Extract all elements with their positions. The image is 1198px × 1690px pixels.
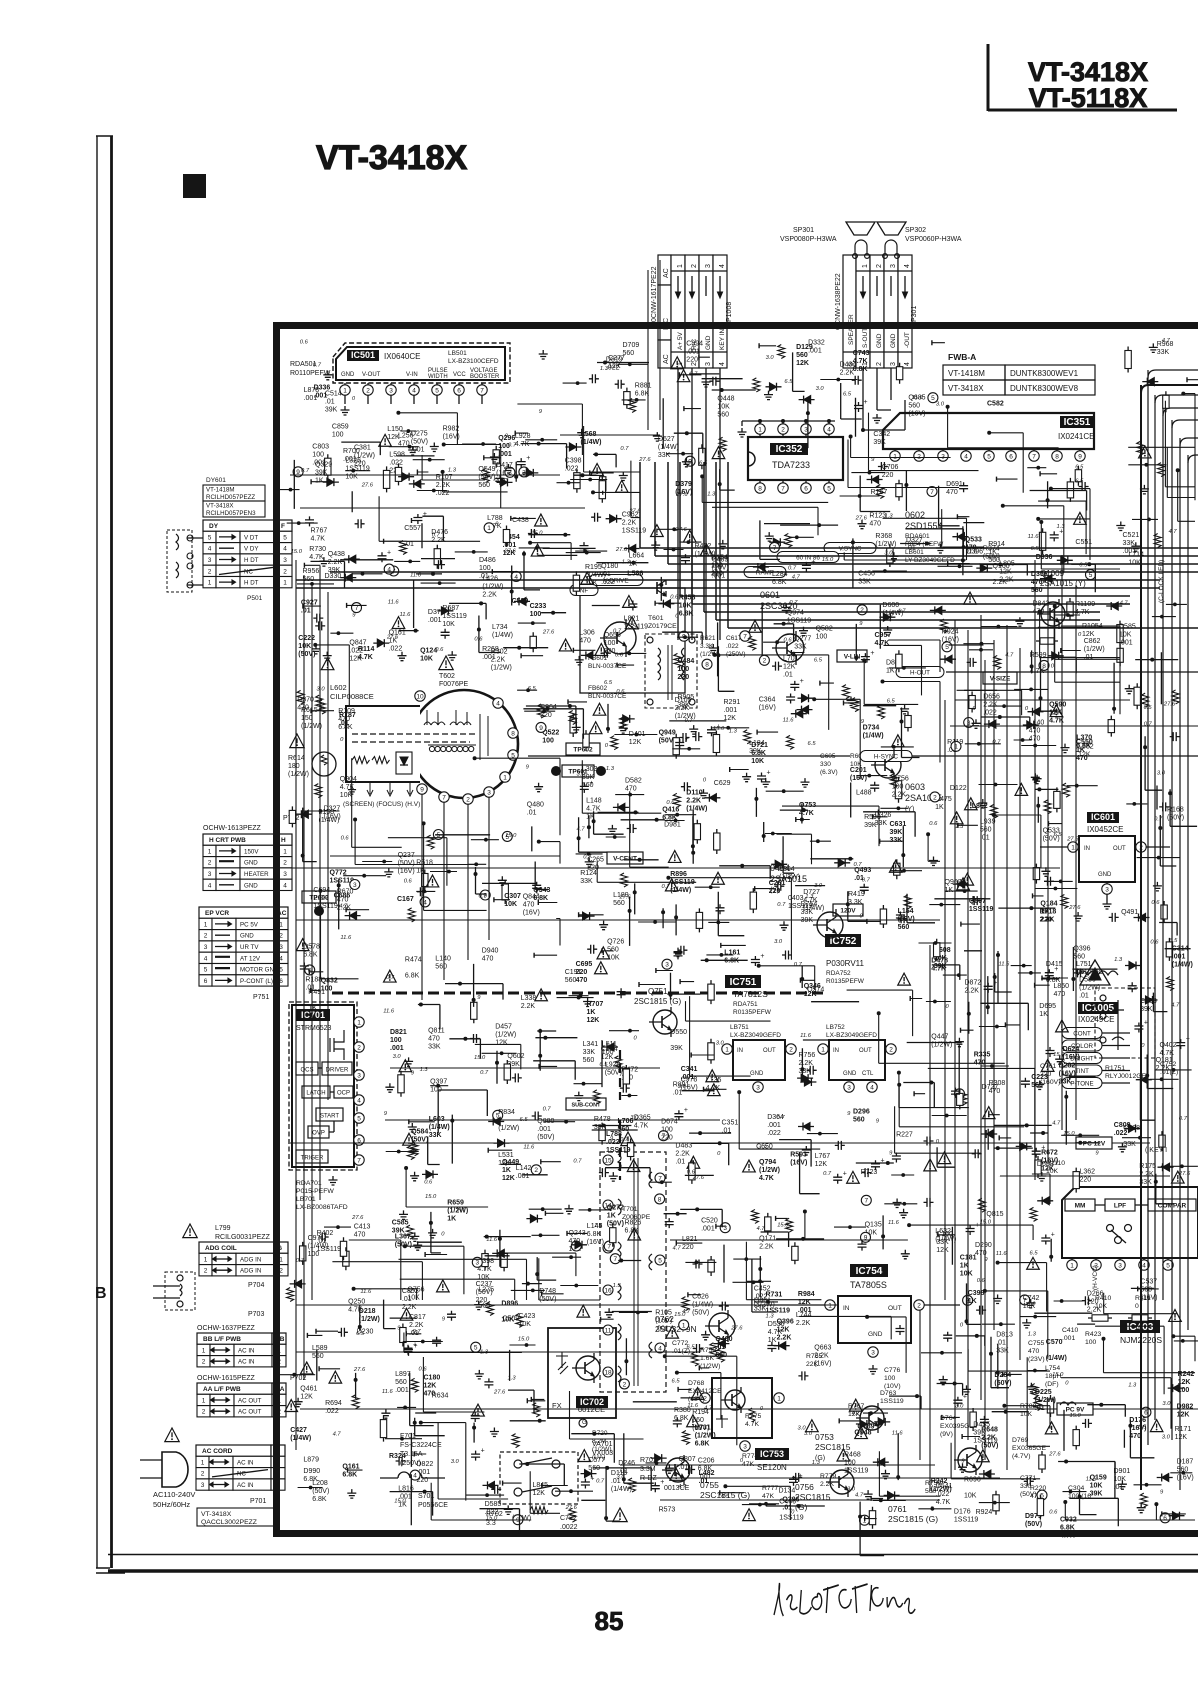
svg-text:0.6: 0.6 (300, 339, 309, 345)
svg-text:(50V): (50V) (395, 1242, 412, 1249)
svg-text:C629: C629 (714, 780, 731, 787)
svg-text:Q904: Q904 (340, 776, 357, 783)
svg-text:OUT: OUT (763, 1048, 776, 1054)
svg-text:2.2K: 2.2K (981, 1435, 996, 1442)
svg-text:VSP0080P-H3WA: VSP0080P-H3WA (780, 236, 837, 243)
svg-text:3.0: 3.0 (774, 939, 783, 945)
svg-text:27.6: 27.6 (675, 492, 688, 498)
svg-text:AC OUT: AC OUT (238, 1397, 262, 1404)
svg-text:10K: 10K (960, 1270, 973, 1277)
svg-text:1: 1 (204, 1256, 208, 1263)
svg-text:3: 3 (283, 871, 287, 878)
svg-text:C557: C557 (404, 525, 421, 532)
svg-text:V-IN: V-IN (406, 372, 418, 378)
svg-text:4: 4 (283, 546, 287, 553)
svg-text:6: 6 (804, 485, 808, 492)
svg-text:(9V): (9V) (940, 1431, 953, 1438)
svg-text:10K: 10K (1128, 560, 1141, 567)
svg-text:D734: D734 (863, 725, 880, 732)
svg-text:2: 2 (876, 362, 883, 366)
svg-text:C484: C484 (678, 658, 695, 665)
svg-text:3: 3 (1118, 1262, 1122, 1269)
svg-text:3.0: 3.0 (1162, 1401, 1171, 1407)
svg-text:C423: C423 (519, 1313, 536, 1320)
svg-text:1: 1 (202, 1397, 206, 1404)
svg-text:(1/4W): (1/4W) (319, 817, 340, 824)
svg-text:4: 4 (827, 426, 831, 433)
svg-text:0.7: 0.7 (508, 442, 517, 448)
svg-text:470: 470 (523, 901, 535, 908)
svg-text:D624: D624 (1063, 1046, 1080, 1053)
svg-text:AC110-240V: AC110-240V (153, 1490, 195, 1499)
svg-text:5: 5 (658, 1257, 662, 1264)
svg-text:F0076PE: F0076PE (439, 681, 469, 688)
svg-text:R105: R105 (655, 1309, 672, 1316)
svg-text:GND: GND (240, 933, 254, 940)
svg-text:180: 180 (288, 763, 300, 770)
svg-text:C398: C398 (565, 457, 582, 464)
svg-text:6.5: 6.5 (672, 1378, 681, 1384)
svg-text:27.6: 27.6 (351, 1215, 364, 1221)
svg-text:NC: NC (244, 568, 253, 575)
svg-text:7: 7 (1032, 453, 1036, 460)
svg-text:27.6: 27.6 (1048, 1452, 1061, 1458)
svg-text:+: + (660, 1479, 664, 1486)
svg-text:D813: D813 (996, 1332, 1013, 1339)
svg-text:RCILHD057PEN3: RCILHD057PEN3 (206, 510, 256, 517)
svg-text:1: 1 (283, 580, 287, 587)
svg-text:H DT: H DT (244, 580, 259, 587)
svg-text:(1/4W): (1/4W) (429, 1124, 450, 1131)
svg-text:11.6: 11.6 (1086, 1477, 1098, 1483)
svg-text:7: 7 (607, 1244, 611, 1251)
svg-text:330: 330 (820, 761, 831, 768)
svg-text:Q438: Q438 (328, 551, 345, 558)
svg-text:560: 560 (1073, 953, 1085, 960)
svg-text:R195: R195 (585, 564, 602, 571)
svg-text:12K: 12K (424, 1383, 437, 1390)
svg-text:(1/4W): (1/4W) (492, 632, 513, 639)
svg-text:D674: D674 (661, 1118, 678, 1125)
svg-text:4: 4 (208, 882, 212, 889)
svg-text:SE120N: SE120N (757, 1463, 787, 1472)
svg-text:Q277: Q277 (794, 636, 811, 643)
svg-text:(50V): (50V) (1025, 1521, 1042, 1528)
svg-text:12K: 12K (495, 1040, 508, 1047)
svg-text:D187: D187 (1177, 1458, 1194, 1465)
svg-text:4: 4 (412, 387, 416, 394)
svg-text:EP VCR: EP VCR (205, 910, 229, 917)
svg-text:R767: R767 (311, 527, 328, 534)
svg-text:1: 1 (677, 264, 684, 268)
svg-text:(1/2W): (1/2W) (1079, 984, 1100, 991)
svg-text:Q250: Q250 (348, 1298, 365, 1305)
svg-text:2.2K: 2.2K (965, 988, 980, 995)
svg-text:39K: 39K (325, 407, 338, 414)
svg-text:D768: D768 (688, 1380, 704, 1387)
svg-text:L751: L751 (1076, 961, 1092, 968)
svg-text:4.7K: 4.7K (875, 640, 890, 647)
svg-text:(H-VCC): (H-VCC) (1092, 1265, 1099, 1290)
svg-text:LPF: LPF (1114, 1203, 1126, 1210)
svg-text:Q402: Q402 (1160, 1042, 1177, 1049)
svg-text:C413: C413 (354, 1223, 371, 1230)
svg-text:0.6: 0.6 (1151, 900, 1160, 906)
svg-text:15: 15 (604, 1157, 612, 1164)
svg-text:220: 220 (476, 1297, 488, 1304)
svg-text:4.7: 4.7 (757, 1226, 766, 1232)
svg-text:33K: 33K (428, 1043, 441, 1050)
svg-text:Q847: Q847 (349, 640, 366, 647)
svg-text:0.7: 0.7 (789, 600, 798, 606)
svg-text:SPEAKER: SPEAKER (848, 314, 855, 345)
svg-text:33K: 33K (794, 644, 807, 651)
svg-text:10: 10 (416, 693, 424, 700)
svg-text:1.3: 1.3 (613, 1283, 622, 1289)
svg-text:L364: L364 (779, 866, 795, 873)
svg-text:.01: .01 (325, 399, 335, 406)
svg-text:V DT: V DT (244, 534, 258, 541)
svg-text:+: + (800, 678, 804, 685)
svg-text:0.7: 0.7 (543, 1107, 552, 1113)
svg-text:.022: .022 (389, 646, 403, 653)
svg-text:0.7: 0.7 (313, 363, 322, 369)
svg-text:Q602: Q602 (507, 1053, 524, 1060)
svg-text:39K: 39K (1140, 1006, 1153, 1013)
svg-text:0601: 0601 (760, 590, 780, 600)
svg-text:(50V): (50V) (312, 1488, 329, 1495)
svg-text:V-CENT: V-CENT (613, 856, 637, 863)
svg-text:4.7: 4.7 (682, 1309, 691, 1315)
svg-text:2.2K: 2.2K (675, 1151, 690, 1158)
svg-text:IC351: IC351 (1064, 417, 1091, 428)
svg-text:(16V): (16V) (523, 909, 540, 916)
svg-text:11.6: 11.6 (999, 962, 1011, 968)
svg-text:4: 4 (204, 955, 208, 962)
svg-text:150: 150 (301, 715, 313, 722)
svg-text:27.6: 27.6 (503, 549, 516, 555)
svg-text:(16V): (16V) (1177, 1474, 1194, 1481)
svg-text:6.8K: 6.8K (1076, 743, 1091, 750)
svg-text:GND: GND (843, 1071, 857, 1077)
svg-text:RDA751: RDA751 (733, 1001, 758, 1008)
svg-text:11.6: 11.6 (687, 1403, 699, 1409)
svg-text:C695: C695 (576, 961, 593, 968)
svg-text:6.8K: 6.8K (724, 958, 739, 965)
svg-text:Q533: Q533 (965, 536, 982, 543)
svg-text:Q329: Q329 (315, 462, 332, 469)
svg-text:1SS119: 1SS119 (622, 527, 646, 534)
svg-text:D134: D134 (779, 1488, 796, 1495)
svg-text:4.7: 4.7 (1052, 1121, 1061, 1127)
svg-text:12K: 12K (498, 1160, 511, 1167)
svg-text:Q135: Q135 (865, 1221, 882, 1228)
svg-text:3.0: 3.0 (816, 386, 825, 392)
svg-text:.001: .001 (390, 1045, 404, 1052)
svg-text:D585: D585 (1119, 624, 1136, 631)
svg-text:2.2K: 2.2K (799, 1060, 814, 1067)
svg-text:R730: R730 (309, 546, 326, 553)
svg-text:10K: 10K (519, 1321, 532, 1328)
svg-text:(1/2W): (1/2W) (495, 1032, 516, 1039)
svg-text:2.2K: 2.2K (686, 798, 701, 805)
svg-text:4.7: 4.7 (1169, 529, 1178, 535)
svg-text:Q967: Q967 (945, 879, 962, 886)
svg-text:1SS119: 1SS119 (954, 1516, 978, 1523)
svg-text:D486: D486 (479, 557, 496, 564)
svg-text:2: 2 (366, 387, 370, 394)
svg-text:100: 100 (1085, 1339, 1097, 1346)
svg-text:5: 5 (1166, 1262, 1170, 1269)
svg-text:4.7: 4.7 (704, 1405, 713, 1411)
svg-text:C427: C427 (290, 1427, 307, 1434)
svg-text:11.6: 11.6 (383, 1008, 395, 1014)
svg-text:Q726: Q726 (607, 939, 624, 946)
svg-text:27.6: 27.6 (353, 1367, 366, 1373)
svg-text:0.6: 0.6 (341, 836, 350, 842)
svg-text:10K: 10K (717, 403, 730, 410)
svg-text:560: 560 (613, 900, 625, 907)
svg-text:R109: R109 (338, 708, 355, 715)
svg-text:0.7: 0.7 (480, 1070, 489, 1076)
svg-text:R634: R634 (432, 1393, 449, 1400)
svg-text:3: 3 (283, 557, 287, 564)
svg-text:0.6: 0.6 (929, 821, 938, 827)
svg-text:(16V): (16V) (587, 1239, 604, 1246)
svg-text:+: + (414, 1343, 418, 1350)
svg-text:S-OUT: S-OUT (862, 328, 869, 348)
svg-text:6: 6 (1163, 1515, 1167, 1522)
svg-text:39K: 39K (392, 1228, 405, 1235)
svg-text:3: 3 (941, 453, 945, 460)
svg-text:220: 220 (769, 888, 781, 895)
svg-text:L897: L897 (395, 1371, 411, 1378)
svg-text:8: 8 (511, 730, 515, 737)
svg-text:470: 470 (297, 705, 309, 712)
svg-text:2: 2 (781, 426, 785, 433)
svg-text:.01: .01 (783, 672, 793, 679)
svg-text:4: 4 (357, 1097, 361, 1104)
svg-text:C862: C862 (1084, 638, 1101, 645)
svg-text:11.6: 11.6 (996, 1251, 1008, 1257)
svg-text:2.2K: 2.2K (521, 1003, 536, 1010)
svg-text:6.5: 6.5 (356, 1331, 365, 1337)
svg-text:0.7: 0.7 (296, 1258, 305, 1264)
svg-text:L879: L879 (303, 1457, 319, 1464)
svg-text:L370: L370 (1076, 735, 1092, 742)
svg-text:1.3: 1.3 (759, 1145, 768, 1151)
svg-text:4.7K: 4.7K (311, 535, 326, 542)
svg-text:GND: GND (244, 882, 258, 889)
svg-text:OUT: OUT (888, 1305, 902, 1312)
svg-text:PC 12V: PC 12V (1083, 1141, 1106, 1148)
svg-text:2: 2 (283, 860, 287, 867)
svg-text:27.6: 27.6 (615, 547, 628, 553)
svg-text:D536: D536 (768, 1321, 785, 1328)
svg-text:P015-PEFW: P015-PEFW (296, 1188, 334, 1195)
svg-text:(1/2W): (1/2W) (498, 1125, 519, 1132)
svg-text:0753: 0753 (815, 1432, 834, 1442)
svg-text:4.7: 4.7 (852, 1411, 861, 1417)
svg-text:T701: T701 (622, 1206, 638, 1213)
svg-text:Q416: Q416 (662, 807, 679, 814)
svg-text:1K: 1K (447, 1215, 456, 1222)
svg-text:D627: D627 (658, 436, 675, 443)
svg-text:(1/4W): (1/4W) (658, 444, 679, 451)
svg-text:5: 5 (435, 387, 439, 394)
svg-text:D981: D981 (664, 822, 681, 829)
svg-text:560: 560 (1031, 1082, 1043, 1089)
svg-text:100: 100 (678, 666, 690, 673)
svg-text:3: 3 (847, 1084, 851, 1091)
svg-text:1: 1 (503, 774, 507, 781)
svg-text:27.6: 27.6 (638, 457, 651, 463)
svg-text:(50V): (50V) (981, 1443, 998, 1450)
svg-text:R124: R124 (580, 870, 597, 877)
svg-text:0.7: 0.7 (620, 446, 629, 452)
svg-text:12K: 12K (349, 656, 362, 663)
svg-text:560: 560 (853, 1117, 865, 1124)
svg-text:H-OUT: H-OUT (910, 670, 930, 677)
svg-text:VT-3418X: VT-3418X (948, 384, 984, 393)
svg-text:Q549: Q549 (478, 466, 495, 473)
svg-text:D326: D326 (875, 812, 892, 819)
svg-text:P704: P704 (248, 1282, 264, 1289)
svg-text:R308: R308 (989, 1080, 1006, 1087)
svg-text:3.0: 3.0 (393, 1054, 402, 1060)
svg-text:9: 9 (539, 725, 543, 732)
svg-text:C222: C222 (298, 635, 315, 642)
svg-text:GND: GND (890, 333, 897, 348)
svg-text:10K: 10K (1119, 632, 1132, 639)
svg-text:2.2K: 2.2K (1087, 1307, 1102, 1314)
svg-text:0761: 0761 (888, 1504, 907, 1514)
svg-text:1.3: 1.3 (508, 1375, 517, 1381)
svg-text:4.7K: 4.7K (768, 1329, 783, 1336)
svg-text:R779: R779 (820, 1473, 836, 1480)
svg-text:3: 3 (208, 557, 212, 564)
svg-text:DUNTK8300WEV8: DUNTK8300WEV8 (1010, 384, 1079, 393)
svg-text:Q663: Q663 (814, 1345, 831, 1352)
svg-text:6.8K: 6.8K (405, 973, 420, 980)
svg-text:560: 560 (478, 482, 490, 489)
svg-text:(1/4W): (1/4W) (803, 905, 824, 912)
svg-text:R335: R335 (974, 1051, 991, 1058)
svg-text:100: 100 (542, 738, 554, 745)
svg-text:1K: 1K (308, 1005, 317, 1012)
svg-text:.001: .001 (395, 1387, 409, 1394)
svg-text:PC 5V: PC 5V (240, 921, 259, 928)
svg-text:.001: .001 (767, 1122, 781, 1129)
svg-text:R573: R573 (659, 1507, 676, 1514)
svg-text:5: 5 (357, 1115, 361, 1122)
svg-text:D246: D246 (618, 1460, 635, 1467)
svg-text:R419: R419 (848, 891, 865, 898)
svg-text:R0135PEFW: R0135PEFW (826, 978, 865, 985)
svg-text:6: 6 (457, 387, 461, 394)
svg-text:1: 1 (283, 848, 287, 855)
svg-text:4: 4 (496, 700, 500, 707)
svg-text:5: 5 (204, 967, 208, 974)
svg-text:3.0: 3.0 (804, 1431, 813, 1437)
svg-text:START: START (320, 1114, 339, 1120)
svg-text:C521: C521 (1123, 532, 1140, 539)
svg-text:(10V): (10V) (884, 1383, 901, 1390)
svg-text:Q948: Q948 (854, 1430, 871, 1437)
svg-text:3.3K: 3.3K (848, 899, 863, 906)
svg-text:560: 560 (796, 352, 808, 359)
svg-text:1.3: 1.3 (1114, 957, 1123, 963)
svg-text:C364: C364 (759, 696, 776, 703)
svg-text:4.7K: 4.7K (515, 441, 530, 448)
svg-text:0.7: 0.7 (457, 1207, 466, 1213)
svg-text:27.6: 27.6 (855, 516, 868, 522)
svg-text:D769: D769 (1012, 1437, 1028, 1444)
svg-text:0.7: 0.7 (432, 533, 441, 539)
svg-text:1: 1 (828, 1302, 832, 1309)
svg-text:33K: 33K (583, 1049, 596, 1056)
svg-text:5: 5 (208, 534, 212, 541)
svg-text:D585: D585 (485, 1501, 502, 1508)
svg-text:R368: R368 (875, 533, 892, 540)
svg-text:D176: D176 (954, 1508, 971, 1515)
svg-text:15.0: 15.0 (505, 833, 517, 839)
svg-text:1K: 1K (629, 561, 638, 568)
svg-text:L341: L341 (583, 1041, 599, 1048)
svg-text:8: 8 (658, 1196, 662, 1203)
svg-text:IN: IN (843, 1305, 850, 1312)
svg-text:F: F (281, 523, 285, 530)
svg-text:Q949: Q949 (659, 730, 676, 737)
svg-text:100: 100 (332, 432, 344, 439)
svg-text:0: 0 (1135, 1303, 1139, 1310)
svg-text:33K: 33K (658, 452, 671, 459)
svg-text:560: 560 (1140, 1286, 1152, 1293)
svg-text:4: 4 (904, 362, 911, 366)
svg-text:(16V): (16V) (1063, 1054, 1080, 1061)
svg-text:5: 5 (474, 1345, 478, 1352)
svg-text:2: 2 (623, 1381, 627, 1388)
svg-text:11.6: 11.6 (783, 718, 795, 724)
svg-text:(1/4W): (1/4W) (611, 1486, 632, 1493)
svg-text:P-CONT (L): P-CONT (L) (240, 978, 273, 985)
svg-text:IC501: IC501 (351, 350, 375, 360)
svg-text:3.0: 3.0 (766, 355, 775, 361)
svg-text:.001: .001 (1172, 954, 1186, 961)
svg-text:560: 560 (395, 1379, 407, 1386)
svg-text:2SD1554: 2SD1554 (905, 521, 943, 531)
svg-text:D176: D176 (1129, 1417, 1146, 1424)
svg-text:1K: 1K (587, 1009, 596, 1016)
svg-text:D990: D990 (303, 1468, 320, 1475)
svg-text:C351: C351 (722, 1119, 739, 1126)
svg-text:STRM6523: STRM6523 (296, 1025, 332, 1032)
svg-text:(1/2W): (1/2W) (288, 771, 309, 778)
svg-text:.001: .001 (1062, 1335, 1075, 1342)
svg-text:C978: C978 (681, 1077, 698, 1084)
svg-text:R468: R468 (844, 1452, 861, 1459)
svg-text:1: 1 (208, 848, 212, 855)
svg-text:6.5: 6.5 (1169, 938, 1178, 944)
svg-text:560: 560 (583, 1057, 595, 1064)
svg-text:6.8K: 6.8K (587, 1231, 602, 1238)
svg-text:6.8K: 6.8K (625, 1228, 640, 1235)
svg-text:VT-1418M: VT-1418M (206, 487, 235, 494)
svg-text:BB L/F PWB: BB L/F PWB (203, 1336, 241, 1343)
svg-text:C859: C859 (332, 424, 349, 431)
svg-text:DUNTK8300WEV1: DUNTK8300WEV1 (1010, 369, 1079, 378)
svg-text:L744: L744 (796, 1312, 812, 1319)
